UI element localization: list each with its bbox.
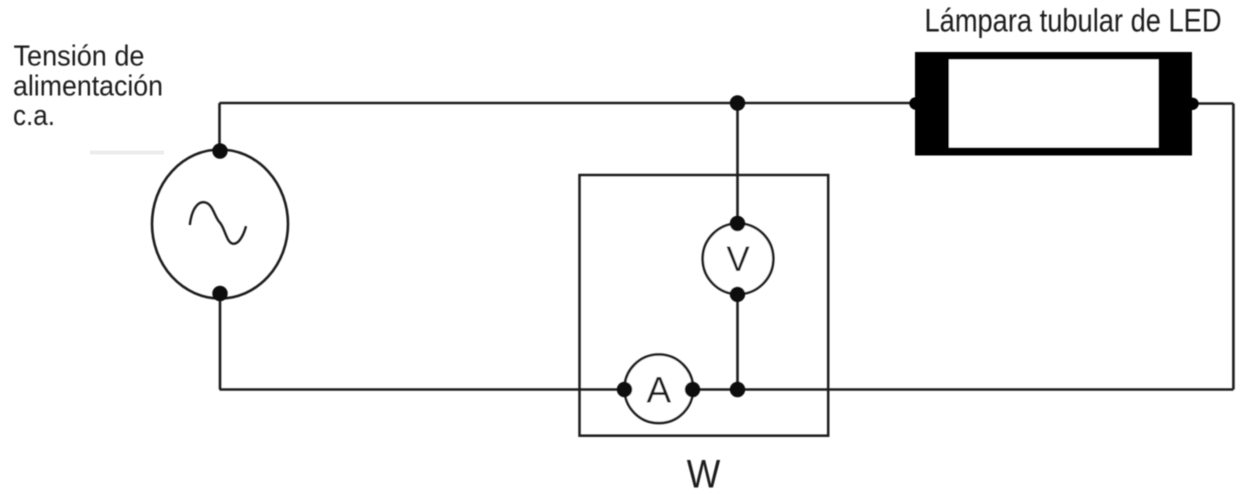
svg-text:alimentación: alimentación xyxy=(13,70,163,102)
node voltmeter bottom xyxy=(730,287,745,302)
wire voltmeter branch upper xyxy=(736,103,739,223)
wire right vertical xyxy=(1232,104,1235,390)
svg-text:V: V xyxy=(726,240,750,279)
svg-text:A: A xyxy=(646,370,671,411)
wire bottom horizontal xyxy=(220,388,1234,391)
node source top xyxy=(212,143,227,158)
svg-text:W: W xyxy=(687,453,721,494)
wire source top vertical xyxy=(218,103,221,151)
wire voltmeter branch lower xyxy=(736,295,739,390)
wire source bottom vertical xyxy=(219,294,222,390)
voltmeter V1 circle xyxy=(703,223,774,294)
svg-text:c.a.: c.a. xyxy=(13,100,55,132)
wire lamp right to corner xyxy=(1193,102,1233,105)
LED tube lamp inner window xyxy=(949,60,1159,148)
wire top horizontal (source to lamp) xyxy=(220,102,916,105)
node ammeter right xyxy=(685,382,700,397)
svg-text:Tensión de: Tensión de xyxy=(14,40,145,72)
ammeter A1 circle xyxy=(625,355,694,424)
node source bottom xyxy=(212,286,227,301)
label: Tensión de alimentación c.a. xyxy=(13,40,163,132)
AC source G1 xyxy=(152,150,288,299)
node voltmeter top xyxy=(730,216,745,231)
node junction top xyxy=(730,95,745,110)
LED tube lamp body xyxy=(915,52,1192,156)
scan smudge artifact xyxy=(90,151,164,155)
svg-text:Lámpara tubular de LED: Lámpara tubular de LED xyxy=(925,2,1222,38)
lamp terminal left xyxy=(909,97,921,109)
wattmeter box W xyxy=(580,175,829,436)
node junction bottom xyxy=(730,382,745,397)
AC sine symbol xyxy=(190,202,246,244)
lamp terminal right xyxy=(1186,98,1198,110)
node ammeter left xyxy=(617,382,632,397)
